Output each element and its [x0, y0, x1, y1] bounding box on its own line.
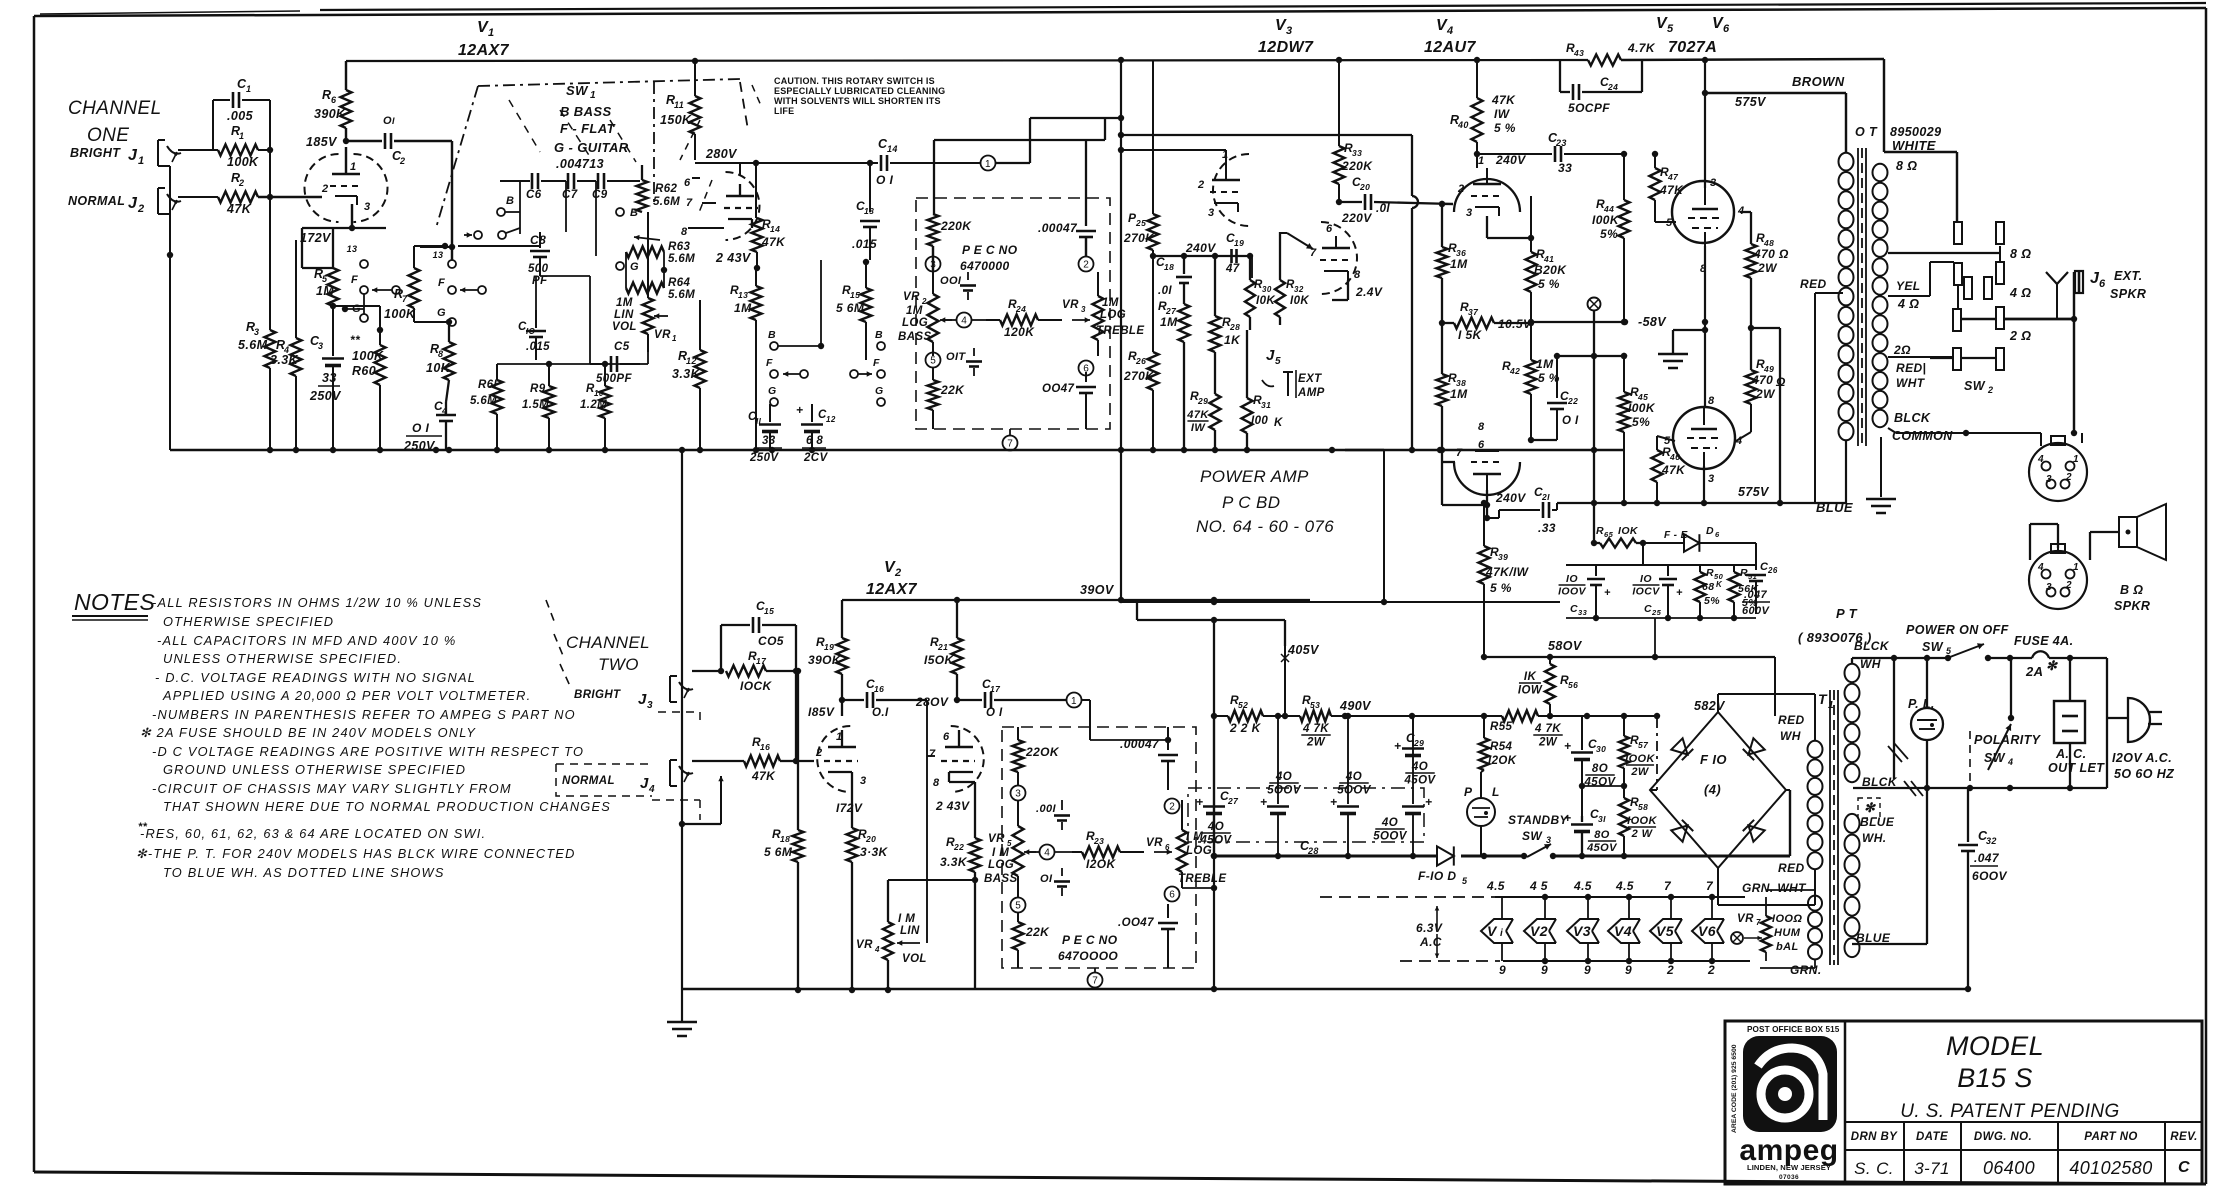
svg-text:185V: 185V: [306, 135, 338, 149]
channel two dashes: [546, 600, 570, 686]
svg-text:1M: 1M: [1450, 257, 1468, 271]
svg-text:G: G: [630, 261, 639, 273]
svg-text:11: 11: [674, 100, 684, 110]
tube V1 label: [458, 19, 510, 59]
border frame top: [34, 3, 2206, 16]
transformer OT core: [1858, 148, 1866, 446]
wire B+ bus left: [1211, 853, 1310, 859]
capacitor C23: [1474, 131, 1627, 175]
label 280V: [705, 147, 738, 161]
label T1: [1818, 691, 1834, 711]
svg-text:IOCK: IOCK: [740, 679, 773, 693]
svg-text:B: B: [506, 195, 514, 207]
node X upper: [1588, 298, 1601, 547]
switch SW3 standby: [1461, 813, 1569, 859]
resistor R2: [218, 171, 258, 216]
wire C17 row: [1090, 737, 1171, 743]
notes line 8: [140, 725, 476, 740]
wire plug: [2107, 658, 2128, 788]
ampeg wordmark: [1739, 1134, 1838, 1167]
capacitor C22: [1547, 356, 1579, 440]
outlet AC: [2048, 701, 2105, 775]
title value rev: [2178, 1159, 2190, 1176]
switch SW1 wafer3 contacts: [616, 207, 660, 273]
svg-text:2 2 K: 2 2 K: [1229, 721, 1262, 735]
resistor R5: [314, 267, 339, 330]
PEC2 pin4: [1028, 845, 1072, 860]
svg-text:22: 22: [1567, 396, 1578, 406]
svg-text:SW: SW: [1922, 640, 1944, 654]
wire trunk x1121: [1120, 60, 1122, 450]
resistor R28: [1210, 256, 1242, 394]
title header REV: [2170, 1131, 2197, 1143]
svg-text:7: 7: [402, 294, 408, 304]
svg-text:LIN: LIN: [900, 925, 920, 937]
notes line 9: [152, 744, 584, 759]
svg-text:bAL: bAL: [1776, 941, 1799, 953]
svg-text:6: 6: [2099, 278, 2106, 290]
svg-text:10: 10: [594, 389, 604, 398]
switch SW1 wafer2 contacts: [433, 250, 486, 326]
wire outlet top: [2069, 658, 2071, 701]
svg-text:1.5M: 1.5M: [522, 399, 549, 411]
label GRN: [1790, 963, 1822, 977]
wire J1 to R1 node: [178, 149, 218, 151]
label NORMAL J4: [562, 775, 655, 795]
svg-text:470: 470: [1751, 373, 1773, 387]
svg-text:4: 4: [1044, 848, 1050, 859]
svg-text:DWG. NO.: DWG. NO.: [1974, 1131, 2032, 1143]
wire V5 grid: [1655, 221, 1676, 223]
svg-text:DRN BY: DRN BY: [1851, 1131, 1898, 1143]
svg-text:15: 15: [850, 290, 860, 300]
label BRIGHT: [70, 146, 121, 160]
wire white tap: [1884, 152, 1957, 222]
tube V5: [1666, 177, 1745, 275]
svg-text:4O: 4O: [1345, 771, 1362, 783]
wire T1 primary top lead: [1852, 658, 1894, 663]
svg-text:STANDBY: STANDBY: [1508, 813, 1569, 827]
svg-text:6: 6: [684, 177, 691, 189]
svg-text:5%: 5%: [1742, 597, 1758, 609]
svg-text:6 8: 6 8: [806, 435, 823, 447]
svg-text:9: 9: [1584, 963, 1591, 977]
svg-text:390K: 390K: [314, 107, 346, 121]
svg-text:OTHERWISE SPECIFIED: OTHERWISE SPECIFIED: [163, 614, 334, 629]
svg-text:LINDEN, NEW JERSEY: LINDEN, NEW JERSEY: [1747, 1163, 1831, 1172]
svg-text:C: C: [2178, 1159, 2190, 1176]
label CHANNEL ONE: [68, 98, 162, 146]
PEC2 22K resistor: [1013, 912, 1051, 968]
svg-text:+: +: [1564, 739, 1571, 753]
svg-text:1: 1: [2073, 454, 2079, 465]
svg-text:53: 53: [1310, 700, 1320, 710]
svg-text:3: 3: [1081, 305, 1086, 314]
capacitor C9: [592, 173, 640, 201]
title B15S: [1957, 1063, 2033, 1093]
resistor R47: [1650, 151, 1685, 222]
svg-text:18: 18: [1164, 262, 1174, 272]
PEC1 dashed box: [916, 198, 1110, 429]
PEC2 dashed box: [1002, 727, 1196, 968]
svg-text:1: 1: [239, 131, 244, 141]
svg-text:28: 28: [1229, 322, 1240, 332]
wire T1 bottom blue lead: [1852, 788, 1927, 958]
svg-text:2W: 2W: [1757, 261, 1778, 275]
svg-text:23: 23: [1093, 836, 1104, 846]
wire heater winding leads: [1760, 890, 1815, 968]
switch SW2 row1: [1888, 222, 2031, 262]
svg-text:9: 9: [1625, 963, 1632, 977]
svg-text:CHANNEL: CHANNEL: [68, 98, 162, 119]
tube V3b: [1310, 222, 1383, 299]
potentiometer VR6: [1146, 800, 1226, 888]
svg-text:68: 68: [1702, 581, 1714, 593]
wire V2 plate rail: [842, 597, 1310, 603]
PEC2 pin3: [1011, 786, 1026, 801]
wire vr6 to bus: [1182, 885, 1217, 891]
svg-text:1: 1: [246, 84, 251, 94]
svg-text:.OO47: .OO47: [1118, 917, 1154, 929]
svg-text:07036: 07036: [1779, 1174, 1799, 1181]
svg-text:490V: 490V: [1339, 699, 1372, 713]
svg-text:VR: VR: [1146, 837, 1163, 849]
label POWER ON OFF: [1906, 623, 2009, 637]
wire 405V up: [1137, 600, 1285, 716]
resistor R32: [1275, 232, 1309, 325]
capacitor C2: [346, 115, 452, 166]
wire V1 plate up: [345, 147, 347, 174]
svg-text:EXT.: EXT.: [2114, 269, 2142, 283]
svg-text:13: 13: [347, 244, 358, 254]
svg-text:3: 3: [860, 775, 867, 787]
tube V2a: [815, 726, 867, 792]
svg-text:POLARITY: POLARITY: [1974, 733, 2042, 747]
title table lines: [1845, 1122, 2202, 1184]
svg-text:5.6M: 5.6M: [668, 253, 695, 265]
svg-text:DATE: DATE: [1916, 1131, 1948, 1143]
svg-text:WITH SOLVENTS WILL SHORTEN: WITH SOLVENTS WILL SHORTEN ITS: [774, 96, 941, 106]
resistor R61: [470, 364, 503, 450]
svg-text:.33: .33: [1538, 521, 1556, 535]
svg-text:5O 6O HZ: 5O 6O HZ: [2114, 767, 2175, 781]
capacitor C29: [1394, 716, 1436, 787]
wire C22 X node: [1554, 353, 1627, 359]
ampeg logo black square: [1743, 1036, 1837, 1132]
svg-text:17: 17: [756, 656, 767, 666]
jack J3: [670, 676, 693, 702]
svg-text:VOL: VOL: [902, 953, 927, 965]
resistor R53: [1300, 693, 1331, 749]
label 172V: [836, 799, 970, 815]
capacitor C31: [1564, 807, 1618, 856]
svg-text:IOOΩ: IOOΩ: [1772, 913, 1802, 925]
resistor R3: [238, 197, 276, 450]
capacitor C28a: [1260, 713, 1302, 859]
triode V1: [305, 154, 388, 222]
capacitor C30: [1564, 716, 1616, 816]
svg-text:LIN: LIN: [614, 309, 634, 321]
svg-text:4O: 4O: [1381, 817, 1398, 829]
svg-text:47K: 47K: [226, 202, 252, 216]
svg-text:21: 21: [937, 642, 948, 652]
svg-text:I85V: I85V: [808, 705, 835, 719]
svg-text:220K: 220K: [940, 219, 972, 233]
svg-text:2CV: 2CV: [803, 452, 829, 464]
tube V6 label: [1712, 15, 1730, 35]
svg-text:LOG: LOG: [1100, 309, 1126, 321]
svg-text:OI: OI: [1040, 873, 1053, 885]
svg-text:4 Ω: 4 Ω: [2009, 286, 2031, 300]
resistor R54: [1479, 716, 1517, 772]
diode D6: [1636, 525, 1756, 552]
svg-text:16: 16: [760, 742, 770, 752]
PEC2 pin2: [1165, 799, 1180, 814]
svg-text:3: 3: [1208, 207, 1215, 219]
wire R1 to grid node: [258, 147, 273, 197]
svg-text:OO47: OO47: [1042, 383, 1074, 395]
resistor R16: [744, 735, 796, 783]
svg-text:WHITE: WHITE: [1892, 138, 1936, 153]
svg-text:240V: 240V: [1495, 491, 1526, 505]
svg-text:3.3K: 3.3K: [672, 367, 701, 381]
border frame right: [2205, 8, 2208, 1184]
svg-text:RED: RED: [1800, 277, 1827, 291]
svg-text:47K: 47K: [1186, 409, 1209, 421]
svg-text:5OOV: 5OOV: [1337, 785, 1371, 797]
title block outline: [1725, 1021, 2202, 1184]
svg-text:NORMAL: NORMAL: [562, 775, 615, 787]
PEC1 pin4: [944, 313, 986, 328]
resistor R9: [522, 364, 555, 450]
svg-text:G: G: [875, 385, 884, 397]
label C28: [1300, 839, 1319, 856]
svg-text:1: 1: [2073, 562, 2079, 573]
svg-text:O I: O I: [1562, 415, 1579, 427]
svg-text:TREBLE: TREBLE: [1178, 873, 1226, 885]
heater pin numbers: [1499, 963, 1715, 977]
svg-text:IO: IO: [1640, 573, 1652, 585]
svg-text:22K: 22K: [1025, 925, 1050, 939]
resistor R62: [637, 165, 681, 212]
resistor R11: [660, 61, 701, 160]
svg-text:7: 7: [929, 748, 936, 760]
svg-text:14: 14: [770, 224, 780, 234]
wire trunk x682: [681, 450, 683, 990]
svg-text:F: F: [766, 357, 773, 369]
svg-text:39OV: 39OV: [1080, 583, 1115, 597]
svg-text:2: 2: [1197, 179, 1205, 191]
svg-text:NO. 64 - 60 - 076: NO. 64 - 60 - 076: [1196, 517, 1334, 536]
svg-text:I2OK: I2OK: [1086, 857, 1117, 871]
svg-text:- D.C. VOLTAGE READINGS WIT: - D.C. VOLTAGE READINGS WITH NO SIGNAL: [155, 670, 476, 685]
svg-text:31: 31: [1261, 400, 1271, 410]
svg-text:1M: 1M: [1102, 297, 1119, 309]
svg-text:150K: 150K: [660, 113, 692, 127]
label PC BD: [1222, 493, 1280, 512]
label BRIGHT J3: [574, 689, 653, 711]
svg-text:5OCPF: 5OCPF: [1568, 101, 1610, 115]
svg-text:1: 1: [590, 90, 596, 101]
svg-text:2.4V: 2.4V: [1355, 285, 1383, 299]
svg-text:I2OV A.C.: I2OV A.C.: [2112, 751, 2172, 765]
svg-text:3I: 3I: [1598, 814, 1606, 824]
wire V6 plate down: [1701, 466, 1707, 506]
connector DIN speaker: [2029, 544, 2087, 609]
svg-text:+: +: [1425, 795, 1432, 809]
svg-text:1: 1: [985, 159, 991, 170]
resistor R8: [426, 322, 455, 402]
capacitor C12: [796, 403, 836, 464]
transformer T1 core: [1830, 690, 1838, 965]
capacitor C18: [1156, 253, 1192, 300]
PEC1 pin5: [926, 353, 941, 368]
svg-text:33: 33: [1352, 148, 1362, 158]
svg-text:582V: 582V: [1694, 699, 1726, 713]
wire J3 grid: [793, 758, 814, 764]
svg-text:2W: 2W: [1306, 737, 1326, 749]
resistor R52: [1228, 693, 1263, 735]
svg-text:R64: R64: [668, 277, 691, 289]
svg-text:C5: C5: [614, 341, 630, 353]
svg-text:1: 1: [672, 334, 677, 343]
svg-text:BLUE: BLUE: [1860, 815, 1895, 829]
potentiometer VR5: [984, 800, 1036, 898]
title value SC: [1854, 1159, 1894, 1178]
tube V4b: [1454, 421, 1526, 505]
wire V5 plate: [1704, 60, 1706, 188]
svg-text:A.C: A.C: [1419, 935, 1442, 949]
resistor R15: [836, 259, 872, 360]
svg-text:1.2M: 1.2M: [580, 399, 607, 411]
wire R2 to V1 grid: [258, 194, 322, 200]
svg-text:4.5: 4.5: [1486, 879, 1505, 893]
label SW1: [566, 83, 596, 101]
svg-text:O: O: [383, 115, 392, 127]
PEC1 .00047 cap: [1038, 221, 1096, 256]
title US PATENT PENDING: [1900, 1101, 2120, 1122]
svg-text:5.6M: 5.6M: [238, 338, 268, 352]
svg-text:8: 8: [438, 349, 443, 359]
resistor R44: [1592, 154, 1630, 325]
capacitor C28b: [1330, 713, 1372, 859]
svg-text:AREA CODE (201) 925 6500: AREA CODE (201) 925 6500: [1731, 1044, 1738, 1133]
resistor R42: [1502, 316, 1560, 440]
svg-text:2W: 2W: [1538, 737, 1558, 749]
svg-text:5: 5: [1664, 435, 1671, 447]
svg-text:VR: VR: [1062, 299, 1079, 311]
svg-text:BASS: BASS: [898, 331, 932, 343]
svg-text:2: 2: [1666, 963, 1674, 977]
svg-text:B: B: [630, 207, 638, 219]
svg-text:470 Ω: 470 Ω: [1753, 247, 1789, 261]
svg-text:51: 51: [1748, 572, 1757, 581]
svg-text:K: K: [1274, 417, 1283, 429]
svg-text:6: 6: [1715, 530, 1720, 539]
switch SW1 B contacts: [497, 181, 520, 234]
svg-text:20: 20: [865, 834, 876, 844]
svg-text:PART NO: PART NO: [2084, 1131, 2138, 1143]
svg-text:22K: 22K: [940, 383, 965, 397]
PEC1 top wires: [933, 118, 1105, 272]
svg-text:06400: 06400: [1983, 1158, 2035, 1178]
svg-text:HUM: HUM: [1774, 927, 1801, 939]
svg-text:+: +: [1564, 811, 1571, 825]
wire C30 R57 mid: [1579, 783, 1627, 789]
resistor R13: [730, 268, 762, 450]
svg-text:43: 43: [1573, 48, 1584, 58]
svg-text:V5: V5: [1656, 923, 1674, 939]
svg-text:I00K: I00K: [1628, 401, 1656, 415]
svg-text:3: 3: [254, 327, 259, 337]
svg-text:5: 5: [1275, 356, 1281, 367]
svg-text:2 43V: 2 43V: [935, 799, 970, 813]
resistor R10: [580, 364, 611, 450]
svg-text:P T: P T: [1836, 606, 1858, 621]
svg-text:V2: V2: [1530, 923, 1548, 939]
svg-text:UNLESS OTHERWISE SPECIFIED.: UNLESS OTHERWISE SPECIFIED.: [163, 651, 402, 666]
label NORMAL: [68, 194, 125, 208]
svg-text:F - FLAT: F - FLAT: [560, 121, 616, 136]
label GRN WHT: [1742, 881, 1807, 895]
svg-text:8: 8: [1478, 421, 1485, 433]
svg-text:6: 6: [943, 731, 950, 743]
svg-text:2: 2: [2065, 580, 2072, 591]
svg-text:+: +: [1260, 795, 1267, 809]
svg-text:7: 7: [1092, 976, 1098, 987]
svg-text:.005: .005: [227, 109, 254, 123]
svg-text:I72V: I72V: [836, 801, 863, 815]
svg-text:IOK: IOK: [1618, 525, 1639, 537]
svg-text:VR: VR: [988, 833, 1005, 845]
wire 2ohm tap: [1888, 356, 1954, 358]
svg-text:47K: 47K: [761, 235, 786, 249]
tube V3a: [1118, 147, 1249, 226]
svg-text:REV.: REV.: [2170, 1131, 2197, 1143]
svg-text:2W: 2W: [1755, 387, 1776, 401]
wire J4 sleeve: [679, 776, 724, 827]
svg-text:2 Ω: 2 Ω: [2009, 329, 2031, 343]
svg-text:6470000: 6470000: [960, 259, 1010, 273]
svg-text:I M: I M: [898, 913, 915, 925]
svg-text:F: F: [438, 277, 445, 289]
svg-text:+: +: [1676, 587, 1683, 599]
jack J2: [128, 188, 181, 215]
svg-text:24: 24: [1015, 304, 1026, 314]
label 405V: [1281, 643, 1320, 716]
svg-text:GRN.: GRN.: [1790, 963, 1822, 977]
svg-text:5.6M: 5.6M: [470, 395, 497, 407]
svg-text:R62: R62: [655, 183, 678, 195]
svg-text:5: 5: [1462, 876, 1468, 886]
svg-text:LOG: LOG: [988, 859, 1014, 871]
svg-text:23: 23: [1555, 138, 1567, 148]
svg-text:IOCV: IOCV: [1632, 586, 1660, 598]
notes double-star mark: [138, 821, 148, 833]
marker circle 1 V2: [1067, 693, 1091, 741]
capacitor C16: [808, 677, 890, 719]
svg-text:45OV: 45OV: [1586, 842, 1618, 854]
wire brown lead: [1702, 90, 1846, 152]
wire yel tap: [1888, 262, 1954, 296]
svg-text:47K: 47K: [751, 769, 776, 783]
switch SW4 polarity: [1974, 715, 2042, 770]
capacitor C10: [518, 310, 550, 360]
svg-text:7: 7: [1007, 439, 1013, 450]
capacitor C3: [309, 330, 344, 450]
label 575V top: [1735, 95, 1767, 109]
title MODEL: [1946, 1031, 2044, 1061]
